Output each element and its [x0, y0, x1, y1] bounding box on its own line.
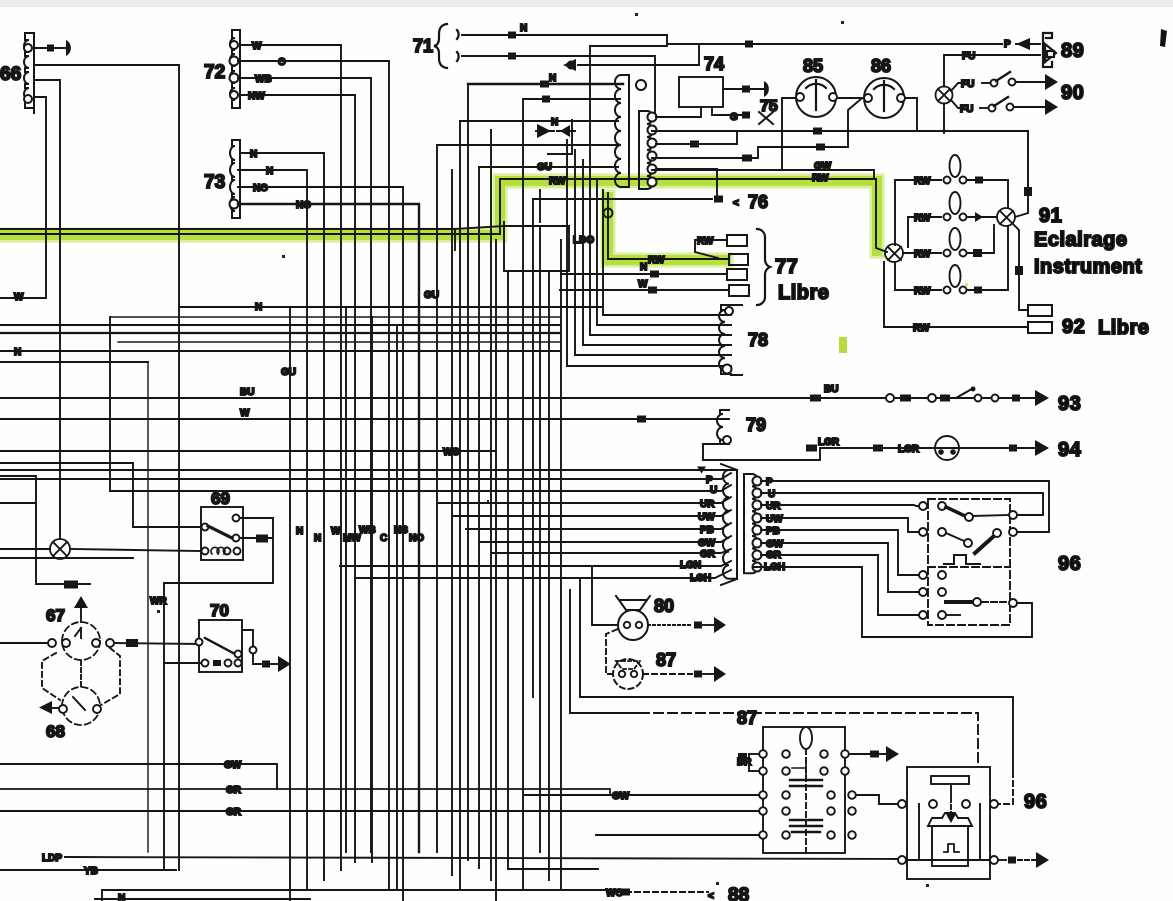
connector 79 [717, 410, 731, 444]
wire RW highlighted (black core) [0, 179, 887, 252]
feed down to 92 [1013, 224, 1028, 310]
wire gauges feed to 91 [917, 131, 1028, 217]
wire 88 [617, 891, 708, 893]
svg-text:PB: PB [766, 526, 780, 537]
svg-text:96: 96 [1058, 553, 1081, 575]
wire 66 top to arrow [34, 47, 66, 49]
svg-text:Instrument: Instrument [1034, 256, 1142, 278]
lamp dimmer fuse node [936, 51, 1041, 133]
connector coil column left U1 [615, 75, 646, 187]
connector 89 [1043, 33, 1056, 67]
bottom edge partial line [95, 898, 310, 900]
svg-text:GW: GW [814, 161, 832, 172]
svg-text:WB: WB [255, 74, 272, 85]
77 free connector group [560, 229, 770, 305]
svg-text:86: 86 [871, 56, 891, 76]
svg-text:87: 87 [656, 650, 676, 670]
bottom corner x508 [508, 868, 598, 870]
svg-text:Libre: Libre [778, 282, 829, 304]
wire W long [0, 418, 729, 420]
svg-text:GW: GW [612, 791, 630, 802]
relay 69 [164, 489, 273, 583]
wire N bottom [102, 889, 615, 891]
svg-text:78: 78 [748, 330, 768, 350]
svg-text:71: 71 [413, 36, 433, 56]
svg-text:LDP: LDP [42, 853, 62, 864]
horn 80 [592, 566, 726, 640]
wire 72.3 WB [238, 78, 371, 852]
svg-text:RW: RW [914, 286, 931, 297]
wire GR2 [0, 810, 540, 812]
wire coil row B to gauges bottom [652, 130, 1028, 132]
lamp network 91 [884, 155, 1028, 334]
black line above green left [0, 228, 455, 230]
svg-text:NO: NO [253, 183, 268, 194]
wire LDP [65, 857, 898, 859]
svg-text:N: N [266, 166, 273, 177]
svg-text:68: 68 [46, 722, 65, 741]
svg-text:FU: FU [960, 104, 973, 115]
svg-text:80: 80 [654, 596, 674, 616]
internals [805, 749, 807, 853]
svg-text:UR: UR [766, 501, 781, 512]
wire GR to flasher [0, 789, 610, 795]
wire 79 hook to LGR 94 [703, 444, 1035, 460]
svg-text:Eclairage: Eclairage [1034, 229, 1127, 251]
svg-text:RW: RW [697, 236, 714, 247]
wire 73.2 N [238, 170, 307, 890]
svg-text:GR: GR [766, 550, 782, 561]
svg-text:LGH: LGH [690, 573, 711, 584]
lamp on 94 row [935, 436, 959, 460]
svg-text:BU: BU [240, 387, 254, 398]
svg-text:75: 75 [760, 98, 778, 115]
svg-text:N: N [520, 23, 527, 34]
box corners near LDO [504, 222, 569, 271]
svg-text:RW: RW [914, 249, 931, 260]
svg-text:WS: WS [443, 447, 459, 458]
svg-text:UR: UR [700, 499, 715, 510]
svg-text:PB: PB [700, 525, 714, 536]
svg-text:87: 87 [737, 708, 757, 728]
svg-text:GW: GW [766, 539, 784, 550]
wire N disconnect [460, 120, 618, 122]
wire GW [0, 764, 277, 789]
svg-text:74: 74 [704, 54, 724, 74]
left long horizontals [179, 306, 603, 308]
svg-text:W: W [240, 408, 250, 419]
nested corner wires above coil [590, 45, 667, 47]
flasher output arrow [849, 753, 886, 755]
svg-text:77: 77 [775, 256, 798, 278]
svg-text:N: N [640, 262, 647, 273]
wire 73.4 NO thick [238, 204, 419, 852]
motor 68 [39, 687, 101, 741]
wire BU long to 93 [0, 397, 1035, 399]
wire top P feed to 89 [667, 35, 1002, 44]
wire 72.2 O [238, 61, 389, 890]
svg-text:N: N [250, 149, 257, 160]
motor 67 [46, 596, 114, 660]
box2 fed by green RW [729, 254, 748, 265]
libre 92 boxes [1028, 305, 1052, 316]
row1 bulb [895, 180, 941, 245]
wires under gauges [905, 98, 917, 131]
pins inner right / outer right [820, 750, 828, 758]
svg-text:LGN: LGN [680, 560, 701, 571]
relay 96 bottom [898, 767, 998, 879]
svg-text:UW: UW [698, 512, 715, 523]
scan mark top-right [1160, 29, 1167, 47]
disconnect arrows pair [536, 130, 575, 132]
svg-text:73: 73 [204, 172, 225, 193]
svg-text:N: N [551, 117, 558, 128]
connector 78 [719, 305, 742, 375]
svg-text:66: 66 [0, 64, 21, 85]
svg-text:76: 76 [748, 192, 768, 212]
svg-text:BU: BU [824, 384, 838, 395]
svg-text:GU: GU [281, 367, 296, 378]
svg-text:G: G [730, 112, 738, 123]
circle pin above LDO [604, 209, 613, 218]
wire coil row GW riser [652, 170, 874, 179]
connector 73 [230, 140, 241, 218]
wire N into coil [468, 83, 623, 85]
wire 73.1 N [240, 153, 324, 880]
wire motor 67 row [0, 642, 48, 644]
svg-text:FU: FU [962, 51, 975, 62]
svg-text:Libre: Libre [1098, 317, 1149, 339]
svg-text:85: 85 [803, 56, 823, 76]
box4 W [729, 285, 749, 296]
fuse switch row 1 to 90 [951, 83, 965, 91]
svg-text:FU: FU [961, 79, 974, 90]
rows into 96-feed from left [0, 469, 731, 471]
svg-text:79: 79 [746, 415, 766, 435]
svg-text:GW: GW [698, 538, 716, 549]
svg-text:72: 72 [204, 62, 225, 83]
wire 71 N [462, 34, 667, 36]
horn 87 optional [606, 629, 692, 689]
fuse switch row 2 [951, 100, 963, 108]
svg-text:96: 96 [1024, 791, 1047, 813]
green highlighted RW wire [0, 181, 877, 260]
svg-text:P: P [1004, 39, 1011, 50]
svg-text:94: 94 [1058, 439, 1082, 461]
connector pair 96-feed left column [721, 464, 737, 585]
svg-text:<: < [733, 198, 739, 209]
svg-text:LGR: LGR [818, 437, 840, 448]
dimmer right [997, 208, 1015, 226]
dimmer left [885, 244, 903, 262]
long wrap wires [580, 578, 1013, 770]
flasher to relay 96 [856, 795, 898, 804]
svg-text:90: 90 [1061, 82, 1084, 104]
svg-text:N: N [296, 526, 303, 537]
dash links 67-68 [42, 653, 60, 700]
svg-text:NW: NW [248, 91, 265, 102]
verticals feeding 78 [603, 190, 731, 315]
svg-text:N: N [255, 302, 262, 313]
svg-text:N: N [549, 73, 556, 84]
relay 70 [196, 601, 292, 672]
svg-text:GU: GU [537, 162, 552, 173]
scan speck dots [157, 13, 968, 887]
svg-text:N: N [14, 347, 21, 358]
wire C76 [533, 198, 712, 200]
left box outline [0, 361, 148, 363]
pins left outer [759, 750, 767, 758]
pins inner left [782, 750, 790, 758]
svg-text:N: N [314, 533, 321, 544]
row3 bulb [903, 252, 941, 254]
wire P into coil [523, 98, 620, 100]
connector pair 96-feed right column [744, 474, 762, 573]
gauge 85 [796, 56, 837, 117]
extra bundle verticals [345, 307, 347, 852]
svg-text:67: 67 [46, 606, 65, 625]
rows out of 96-feed to switch 96 [761, 481, 1049, 532]
svg-text:WB: WB [359, 525, 376, 536]
wire 71 W [462, 56, 655, 113]
relay 74 [656, 54, 769, 117]
svg-text:W: W [331, 526, 341, 537]
wire 73.3 NO [238, 187, 403, 901]
brace 77 [757, 229, 770, 305]
bottom RW return [884, 262, 1028, 327]
svg-text:GR: GR [226, 807, 242, 818]
svg-text:UW: UW [766, 514, 783, 525]
wire 72.1 W [240, 45, 341, 870]
wire from 66 down col x179 [34, 65, 179, 870]
svg-text:W: W [638, 279, 648, 290]
wire from 66 down col x62 [34, 80, 60, 539]
wire coil row GB to 86 [652, 99, 861, 158]
vertical bundle center [289, 307, 291, 901]
connector 72 [230, 30, 241, 108]
svg-text:RW: RW [648, 255, 665, 266]
box1 + RW hook [727, 235, 747, 246]
svg-text:YB: YB [84, 866, 98, 877]
lamp left [50, 539, 70, 559]
svg-text:88: 88 [728, 885, 749, 901]
wire from 66 down col x46 to W lead [0, 97, 46, 298]
green tick mark [839, 337, 847, 353]
switch block 96 [919, 499, 1017, 625]
svg-text:U: U [710, 485, 717, 496]
wire coil lower right [656, 169, 717, 199]
svg-text:O: O [278, 57, 286, 68]
svg-text:RW: RW [549, 176, 566, 187]
flasher input wires [524, 794, 759, 796]
wire 72.4 NW [238, 95, 355, 862]
flasher unit 87 [737, 708, 856, 853]
wire bottom wrap of 96 [862, 603, 1032, 637]
svg-text:W: W [14, 292, 24, 303]
svg-text:69: 69 [211, 489, 230, 508]
svg-text:NO: NO [409, 533, 424, 544]
svg-text:NO: NO [296, 200, 311, 211]
svg-text:GR: GR [226, 785, 242, 796]
svg-text:93: 93 [1058, 393, 1081, 415]
row2 bulb [908, 217, 941, 247]
wire YB [0, 869, 176, 871]
svg-text:U: U [768, 489, 775, 500]
svg-text:<: < [708, 891, 714, 901]
wire GU into coil [479, 166, 618, 168]
gauge 86 [864, 56, 905, 118]
svg-text:RW: RW [914, 213, 931, 224]
svg-text:W: W [252, 41, 262, 52]
svg-text:RW: RW [812, 173, 829, 184]
svg-text:RW: RW [913, 323, 930, 334]
svg-text:70: 70 [210, 601, 229, 620]
connector coil column right U2 [639, 111, 657, 189]
svg-text:P: P [766, 477, 773, 488]
svg-text:C: C [380, 533, 387, 544]
svg-text:N: N [118, 893, 125, 901]
svg-text:GW: GW [224, 760, 242, 771]
box3 N [727, 269, 747, 280]
svg-text:LGH: LGH [764, 562, 785, 573]
svg-text:92: 92 [1062, 316, 1085, 338]
row4 bulb [895, 262, 941, 290]
wire arrow-left circle line y65 [578, 44, 699, 65]
svg-text:91: 91 [1039, 205, 1062, 227]
svg-text:GR: GR [700, 549, 716, 560]
svg-text:89: 89 [1061, 40, 1084, 62]
svg-text:RW: RW [914, 176, 931, 187]
svg-text:LGR: LGR [898, 444, 920, 455]
